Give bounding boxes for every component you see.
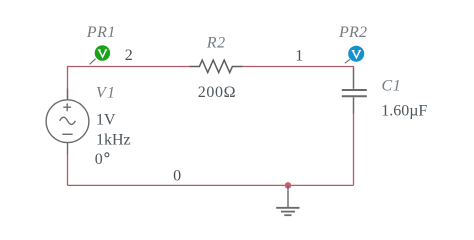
probe PR1 (95, 45, 110, 60)
svg-text:PR2: PR2 (338, 24, 367, 41)
wire right vertical lower (353, 113, 355, 185)
svg-text:0: 0 (173, 168, 181, 185)
wire top-right horizontal (243, 67, 354, 69)
svg-text:PR1: PR1 (86, 24, 116, 41)
resistor R2 (189, 60, 242, 72)
svg-text:R2: R2 (206, 35, 226, 52)
voltage source V1 (46, 89, 89, 155)
svg-text:V1: V1 (96, 85, 116, 102)
wire left vertical lower (67, 155, 69, 186)
svg-text:1: 1 (295, 47, 303, 64)
probe PR1 leader (90, 59, 96, 65)
ground (276, 185, 299, 215)
wire top-left horizontal (68, 67, 190, 100)
wire bottom horizontal (68, 184, 354, 186)
degree ring (105, 153, 109, 157)
capacitor C1 (342, 68, 367, 114)
svg-text:200Ω: 200Ω (198, 84, 236, 101)
svg-text:2: 2 (125, 47, 133, 64)
svg-text:1kHz: 1kHz (96, 132, 131, 149)
junction dot node 0 (285, 182, 292, 189)
svg-text:0: 0 (95, 151, 103, 168)
probe PR2 leader (345, 59, 350, 63)
svg-text:1.60µF: 1.60µF (381, 102, 427, 119)
probe PR2 (348, 46, 364, 62)
svg-text:C1: C1 (382, 77, 402, 94)
svg-text:1V: 1V (96, 111, 116, 128)
